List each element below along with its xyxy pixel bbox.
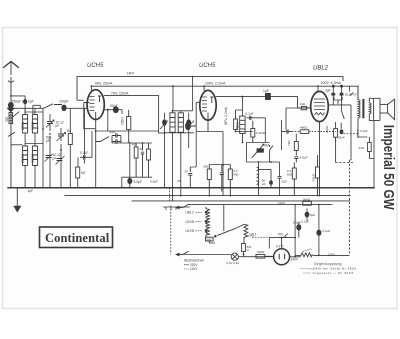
resistor M2: [76, 167, 80, 178]
svg-text:120V: 120V: [328, 253, 336, 257]
wires below tube1: [96, 110, 159, 188]
antenna: [3, 62, 19, 188]
svg-text:0,1µF: 0,1µF: [293, 221, 301, 225]
capacitor 0,1uF (anode): [247, 116, 256, 120]
wire: grid line with switch: [14, 104, 87, 109]
capacitor 0,5uF: [294, 154, 298, 163]
resistor 24R: [368, 137, 372, 159]
svg-text:pF: pF: [46, 139, 50, 143]
resistor 0,3M: [234, 110, 238, 132]
svg-text:40nF: 40nF: [109, 130, 116, 134]
capacitor 25 (left bottom row): [188, 168, 192, 181]
resistor 0,1M (right bottom): [292, 163, 296, 196]
svg-text:zugesetzt — Nr 3603: zugesetzt — Nr 3603: [313, 271, 354, 275]
svg-text:4,5kΩ: 4,5kΩ: [312, 173, 316, 182]
resistor 0,1M bottom row: [228, 165, 232, 196]
svg-text:110V: 110V: [190, 267, 198, 271]
resistor column M2: [134, 143, 138, 177]
svg-text:UCH5: UCH5: [186, 229, 195, 233]
switch S1 (antenna): [8, 132, 15, 137]
wire: anode line tube2 to tube3: [216, 97, 310, 108]
mains terminal upper: [175, 204, 189, 209]
svg-text:25nF: 25nF: [338, 136, 345, 140]
Continental box: [40, 227, 113, 248]
bus G3: [132, 200, 350, 202]
wire: screen bus: [91, 86, 358, 99]
svg-text:200: 200: [203, 165, 208, 169]
svg-text:0,1µF: 0,1µF: [246, 112, 254, 116]
rectifier tube UY2: [274, 249, 290, 265]
capacitor 0,1uF left: [283, 130, 292, 134]
svg-text:150pF 100 kpF: 150pF 100 kpF: [12, 100, 34, 104]
feedback resistor zigzag: [301, 249, 312, 257]
svg-text:100pF: 100pF: [59, 100, 69, 104]
resistor 400R (box on cathode line): [256, 255, 265, 259]
capacitor 5000pF (to bus): [128, 178, 132, 183]
capacitor 1uF right: [317, 230, 321, 235]
capacitor 0,1uF: [80, 155, 89, 160]
bus G2: [65, 195, 350, 197]
svg-text:5,0µF: 5,0µF: [134, 180, 143, 184]
svg-text:70V: 70V: [278, 233, 285, 237]
svg-text:0,1µF: 0,1µF: [323, 229, 331, 233]
ground symbol: [14, 188, 21, 212]
switch (mains): [215, 229, 236, 238]
resistor 50k box on bus: [303, 201, 312, 205]
svg-text:entfällt bei Gerät Nr 3603: entfällt bei Gerät Nr 3603: [309, 267, 357, 271]
coil L4 (osc): [32, 146, 37, 166]
coil 350 on antenna lead: [9, 113, 13, 124]
wires cluster tube3: [282, 86, 375, 255]
IF padder caps: [163, 120, 191, 125]
resistor 0,1M: [251, 121, 255, 143]
capacitor 3uF on top line: [331, 85, 335, 105]
svg-text:240V: 240V: [291, 257, 299, 261]
svg-text:700Ω: 700Ω: [236, 122, 240, 130]
dial lamp: [231, 253, 238, 260]
svg-text:14Ω: 14Ω: [300, 102, 306, 106]
ground bus G1: [8, 187, 374, 189]
IF trimmer arrows: [160, 121, 194, 130]
svg-text:6,3V 0,3A: 6,3V 0,3A: [227, 261, 240, 265]
mains terminal lower: [175, 251, 189, 256]
svg-text:70V, 23mA: 70V, 23mA: [111, 92, 129, 96]
junction dots left: [42, 107, 85, 158]
svg-text:500: 500: [206, 237, 211, 241]
coil 700R (AF choke): [240, 116, 245, 134]
svg-text:20000: 20000: [21, 154, 25, 163]
speaker: [380, 99, 395, 119]
bus G4: [207, 204, 332, 206]
wire: grid lead tube2: [188, 86, 204, 126]
capacitor 0,1uF top of UY: [297, 225, 301, 230]
resistor 7kR: [294, 142, 298, 151]
svg-text:UCH5: UCH5: [186, 220, 195, 224]
svg-text:25: 25: [177, 179, 181, 183]
wire: top HF bus: [77, 77, 343, 101]
svg-text:150Ω: 150Ω: [121, 117, 125, 125]
resistor 500 (box): [206, 237, 214, 241]
output transformer: [358, 86, 380, 138]
svg-text:200Ω: 200Ω: [21, 121, 25, 130]
svg-text:0,1µF: 0,1µF: [360, 129, 368, 133]
svg-text:1µF: 1µF: [28, 189, 34, 193]
svg-text:1M: 1M: [265, 144, 270, 148]
resistor 1M (grid): [68, 134, 72, 145]
tube UBL2: [311, 91, 329, 195]
resistor 200R bottom row: [207, 165, 211, 196]
svg-text:0,5µF: 0,5µF: [150, 180, 158, 184]
tube UCH5 #1: [87, 90, 104, 131]
arrow for 70V: [284, 234, 288, 238]
svg-text:100V, 4,2mA: 100V, 4,2mA: [321, 81, 342, 85]
svg-text:0,1MΩ: 0,1MΩ: [256, 131, 266, 135]
heater bus connectors: [163, 188, 190, 255]
capacitor 10nF (grid tube2, dark): [186, 122, 191, 129]
capacitor 25nF (dark): [340, 129, 344, 134]
wires cluster tube2: [190, 97, 279, 196]
heater chain dashes: [196, 212, 202, 231]
heater dropper zigzag: [205, 207, 209, 237]
svg-text:HFV: HFV: [127, 72, 135, 76]
electrolytic 50uF: [305, 212, 309, 217]
svg-text:UCH5: UCH5: [87, 63, 104, 69]
svg-text:Continental: Continental: [45, 231, 110, 245]
capacitor 100kpF (dark, col2 top): [23, 99, 27, 104]
coil L3 (osc): [23, 146, 28, 166]
svg-text:3µF: 3µF: [325, 89, 331, 93]
resistor 150R: [127, 110, 131, 143]
svg-text:50: 50: [140, 147, 144, 151]
variable capacitor 500pF: [57, 133, 66, 142]
capacitor 100pF (dark): [61, 105, 66, 111]
svg-text:480Ω: 480Ω: [300, 126, 308, 130]
capacitor 1uF (dark, AF coupling line): [266, 94, 271, 100]
coil L2 750R: [32, 115, 37, 134]
svg-text:100V, 2,2mA: 100V, 2,2mA: [205, 82, 226, 86]
svg-text:110V: 110V: [278, 201, 286, 205]
svg-text:M2: M2: [81, 171, 86, 175]
svg-text:350: 350: [5, 116, 9, 122]
svg-text:24Ω: 24Ω: [359, 146, 365, 150]
IF coil A: [170, 113, 175, 133]
svg-text:UBL2: UBL2: [313, 66, 329, 72]
svg-text:UBL2: UBL2: [186, 211, 194, 215]
svg-text:100: 100: [282, 179, 287, 183]
resistor 140R (grid stopper): [298, 106, 311, 109]
svg-text:50µF: 50µF: [110, 104, 118, 108]
svg-text:UY 2: UY 2: [276, 244, 284, 248]
resistor 300R column: [147, 143, 151, 177]
svg-text:pF: pF: [56, 124, 60, 128]
tube UCH5 #2: [200, 90, 216, 131]
svg-text:µF: µF: [262, 182, 266, 186]
electrolytic 50uF stack: [257, 162, 259, 188]
svg-text:0,1µF: 0,1µF: [302, 219, 310, 223]
svg-text:MΩ: MΩ: [287, 173, 293, 177]
svg-text:750Ω: 750Ω: [31, 121, 35, 130]
svg-text:0,5µF: 0,5µF: [300, 156, 308, 160]
capacitor 0,25uF: [340, 85, 344, 111]
svg-text:UCH5: UCH5: [199, 63, 216, 69]
variable capacitor (osc gang): [56, 156, 65, 165]
svg-text:400Ω: 400Ω: [257, 250, 265, 254]
resistor 240R (cathode): [334, 122, 338, 142]
switch W: [96, 131, 109, 142]
capacitor 100: [278, 176, 282, 178]
wire: dash to transformer: [343, 129, 367, 137]
wires: left cluster verticals: [11, 108, 92, 187]
svg-text:25: 25: [185, 170, 189, 174]
wires IF: [159, 77, 194, 201]
capacitor (dark) near electrolytics: [269, 180, 273, 185]
resistor 500R vertical: [242, 244, 246, 252]
svg-text:90V, 26mA: 90V, 26mA: [95, 82, 113, 86]
capacitor 50nF column: [141, 143, 144, 177]
svg-text:5µF: 5µF: [310, 213, 315, 217]
capacitor 50uF (cathode): [104, 107, 122, 113]
capacitor 40nF pair: [112, 133, 121, 143]
svg-text:Imperial 50 GW: Imperial 50 GW: [380, 125, 396, 210]
svg-text:7kΩ: 7kΩ: [287, 140, 291, 146]
trimmer 10-12pF: [46, 120, 54, 128]
wire: grid box tube1: [78, 86, 95, 129]
svg-text:UY 1: UY 1: [250, 233, 257, 237]
trimmer (osc padder): [45, 154, 53, 162]
IF coil B: [178, 113, 183, 133]
svg-text:pF: pF: [53, 157, 57, 161]
svg-text:30000: 30000: [31, 154, 35, 163]
resistor 480R: [300, 130, 309, 134]
svg-text:NFV, 2,2mA: NFV, 2,2mA: [224, 107, 228, 125]
capacitor 150pF (antenna series): [8, 103, 14, 112]
wire: tube3 anode line: [328, 105, 351, 111]
power wiring: [183, 205, 349, 257]
wire: anode line tube1: [104, 96, 158, 133]
wire: antenna branch: [11, 96, 41, 117]
resistor 4,5k (rotated label): [316, 160, 320, 196]
svg-text:Gegenkopplung: Gegenkopplung: [314, 262, 342, 266]
dropper resistor 2 (zigzag): [244, 224, 248, 239]
switch (tone): [270, 145, 273, 156]
coil L1 200R: [23, 115, 28, 134]
svg-text:50kΩ: 50kΩ: [303, 197, 311, 201]
switch right of tube3: [341, 111, 344, 129]
svg-text:1µF: 1µF: [263, 89, 269, 93]
svg-text:MΩ: MΩ: [234, 173, 240, 177]
volume pot 1M: [252, 144, 264, 158]
capacitor bottom row: [220, 167, 224, 192]
